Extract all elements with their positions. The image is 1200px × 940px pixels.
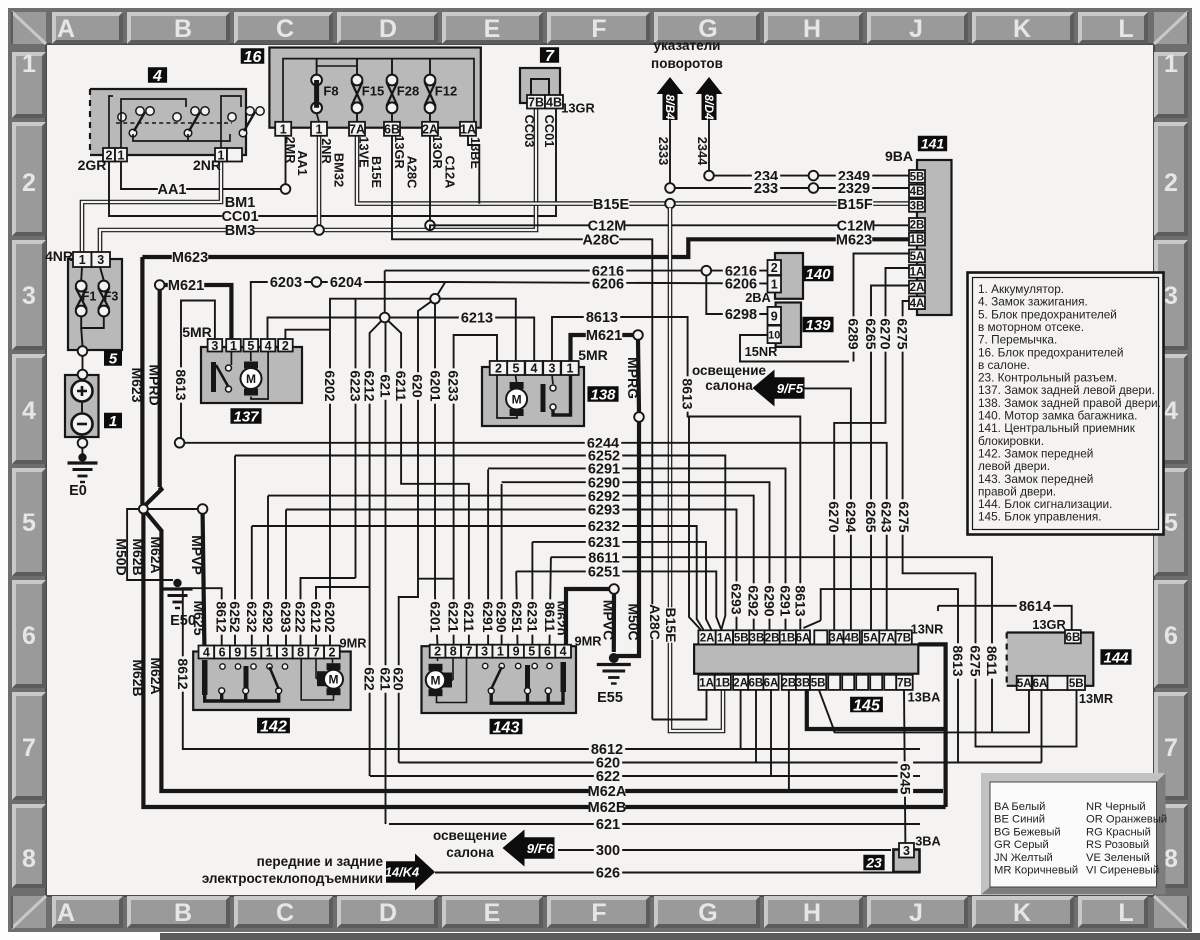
label 6252 [586,448,622,465]
component 141 central locking receiver body [917,160,952,315]
label 6232 [586,518,622,535]
svg-text:8: 8 [450,645,457,659]
wire 6291 bus [487,469,489,644]
wire 2333 from arrow 8/B4 [669,120,671,184]
svg-text:3B: 3B [750,632,765,644]
svg-text:6212: 6212 [362,370,378,401]
svg-text:D: D [379,15,397,43]
svg-text:8613: 8613 [792,585,808,616]
pin 6A bottom of control unit 145 [763,675,778,690]
svg-text:1B: 1B [910,234,925,246]
label 620 between [391,665,407,693]
svg-text:E: E [484,15,501,43]
svg-text:6204: 6204 [330,275,362,291]
component 7 jumper body [520,68,560,103]
wire 6244 bus to 6243 [184,443,886,630]
svg-text:2: 2 [1164,169,1178,197]
label M62B upper [130,538,146,575]
pin 1 of component 5 [73,252,92,267]
pin 3 of lock 142 [277,646,293,660]
wire 6232 bus horizontal [252,526,703,644]
wire 621 bottom line [389,823,920,825]
svg-text:2: 2 [495,362,502,376]
label 6293 at 142 [278,599,294,634]
badge component 138 [587,386,618,403]
label 13OR [430,135,445,168]
connector circle BM32/BM3 [314,225,324,235]
svg-text:6289: 6289 [845,318,861,349]
label M62A upper [148,536,164,573]
label M62B lower [130,659,146,696]
pin 1A top of control unit 145 [716,630,733,644]
svg-text:14/K4: 14/K4 [385,865,419,880]
wire 6216 riser from junction 1 [384,271,386,318]
svg-text:141: 141 [921,136,945,152]
svg-text:7A: 7A [349,122,365,136]
svg-text:2329: 2329 [838,181,870,197]
svg-text:6B: 6B [384,122,400,136]
pin 1A of component 16 at x=460 [460,122,476,137]
pin 4 of lock 138 [525,361,543,376]
label BM3 [225,222,256,239]
wire junction 2 to door lock 138 pin 5 [435,299,516,361]
wire between battery terminals [81,402,83,414]
svg-text:1A: 1A [699,677,714,689]
label 8613 right [950,643,966,678]
svg-text:6: 6 [219,646,226,660]
wire 6201 branch from junction 2 to lock 143 pin 2 [435,299,438,645]
svg-text:6293: 6293 [278,601,294,632]
svg-text:626: 626 [596,866,620,882]
svg-text:3: 3 [1164,282,1178,310]
label 13GR of component 7 [561,101,594,116]
label 6212 top [362,368,378,403]
svg-text:M: M [431,674,441,688]
wire 6245 from 145 pin 7B to connector 23 [904,690,905,845]
connector circle 6203/6204 [312,277,322,287]
svg-text:MPVC: MPVC [600,600,616,640]
svg-text:8611: 8611 [542,602,558,633]
blank pin bottom of 145 [870,675,882,690]
wire 6252 bus [234,456,236,645]
ground symbol E50 [163,589,193,608]
wire slant from 145 pin 5B bottom [819,690,834,732]
pin 4 of lock 142 [199,646,215,660]
svg-text:3BA: 3BA [915,834,941,849]
wire 6292 drop to lock 142 pin 1 [267,496,269,646]
label 6206 left [590,276,626,293]
connector circle 234/2349 [809,171,819,181]
wire from 145 pin 1A bottom to A28C [652,690,706,720]
label 9MR at 142 [339,636,366,651]
pin 5B of alarm 144 [1068,676,1086,690]
junction dot E0 [78,453,86,461]
wire 6290 bus [501,484,503,645]
svg-text:4B: 4B [844,632,859,644]
label M62B [588,799,627,816]
svg-text:6291: 6291 [777,585,793,616]
wire 6223 vertical [355,299,357,578]
svg-text:8: 8 [1164,845,1178,873]
svg-text:2A: 2A [733,677,748,689]
blank pin top of 145 [814,630,827,644]
svg-text:VE Зеленый: VE Зеленый [1086,852,1150,864]
svg-text:3: 3 [903,844,910,858]
wire M623 vertical to junction [140,257,144,504]
connector circle 2333/233 [665,183,675,193]
pin 1 of component 16 at x=275.2 [275,122,291,137]
svg-text:6265: 6265 [863,501,879,532]
label M62A lower [148,657,164,694]
svg-text:3: 3 [97,253,104,267]
svg-text:5A: 5A [910,251,925,263]
pin 3B of receiver 141 [909,199,925,213]
svg-text:5MR: 5MR [578,347,608,363]
svg-text:M62A: M62A [588,784,627,800]
svg-text:2B: 2B [765,632,780,644]
label 8612 [589,741,625,758]
badge component 5 [104,350,122,367]
wire 6222 link to lock 142 pin 8 [301,578,356,646]
pin 7 of lock 142 [308,646,324,660]
label 6292 at 145 [746,583,762,618]
svg-text:A28C: A28C [582,233,620,249]
wire 6216 from junction to motor 140 pin 2 [385,270,702,272]
svg-text:8613: 8613 [950,645,966,676]
svg-text:6223: 6223 [347,370,363,401]
label MPRG [625,357,641,399]
svg-text:A28C: A28C [647,604,663,640]
fuse F1 [76,281,87,317]
label F3 [104,290,119,304]
component 143 switch and motor wiring [437,656,567,703]
label 6298 [723,306,759,323]
svg-text:F28: F28 [397,84,419,99]
connector circle 8613/6244 [175,438,185,448]
label 2329 [836,180,872,197]
pin 2 of lock 142 [324,646,340,660]
svg-text:2B: 2B [910,220,925,232]
svg-text:2A: 2A [700,632,715,644]
pin 3 of lock 138 [543,361,561,376]
label 3BA [915,834,941,849]
wire 6211 branch from junction 1 to lock 143 pin 7 [385,318,469,645]
svg-text:J: J [909,899,923,927]
wire CC01 from ignition pin 2 to jumper 7 pin 4B [109,108,556,216]
svg-text:M623: M623 [172,250,208,266]
label A28C lower [647,604,663,640]
label 233 [752,180,780,197]
wire 620 bottom line [399,762,1042,764]
svg-text:13NR: 13NR [911,622,944,637]
svg-text:15NR: 15NR [745,344,778,359]
label E55 [597,690,623,706]
label 2GR [78,157,107,173]
label M625 [191,600,207,635]
wire 2349 to receiver 141 pin 5B [818,175,909,177]
svg-text:MPRD: MPRD [146,364,162,405]
svg-text:2: 2 [328,646,335,660]
pin 5 of lock 142 [246,646,262,660]
svg-text:8: 8 [22,845,36,873]
label 8611 [586,549,622,566]
svg-text:621: 621 [596,817,620,833]
svg-text:6B: 6B [748,677,763,689]
wire 300 line from arrow 9/F6 [558,849,891,851]
svg-text:6212: 6212 [308,601,324,632]
svg-text:6275: 6275 [896,501,912,532]
label C12M right [837,217,876,234]
svg-text:5B: 5B [811,677,826,689]
label 6213 [459,310,495,327]
pin 4 of lock 143 [555,645,571,659]
text освещение at 9/F6 [433,828,508,843]
svg-text:8613: 8613 [680,378,696,409]
wire 8613 diagonal tap [803,621,820,629]
pin 8 of lock 143 [445,645,461,659]
wire 6232 drop to lock 142 pin 5 [251,526,253,646]
svg-text:6A: 6A [1033,678,1048,690]
svg-text:1B: 1B [715,677,730,689]
svg-text:4: 4 [1164,397,1178,425]
svg-text:5: 5 [247,339,254,353]
label 622 between [362,665,378,693]
svg-text:6202: 6202 [322,370,338,401]
label 6251 [586,563,622,580]
pin 4A of receiver 141 [909,296,925,310]
svg-text:7A: 7A [880,632,895,644]
svg-text:4: 4 [560,645,567,659]
wire M620 from lock 143 pin 4 [566,589,609,645]
label 6293 [586,502,622,519]
motor of lock 143 [426,664,445,696]
svg-text:6222: 6222 [292,601,308,632]
blank pin of component 4 [227,148,242,162]
fuse F28 [387,75,398,114]
wire 233 line [675,187,810,189]
wire 620 branch from junction 2 [399,299,435,763]
svg-text:2NR: 2NR [193,157,221,173]
label 621 top [377,372,393,400]
svg-text:J: J [909,15,923,43]
badge component 139 [802,317,833,334]
svg-text:NR Черный: NR Черный [1086,801,1146,813]
label 6202 top [322,368,338,403]
wire from 145 pin 6A bottom [770,690,772,776]
pin 6 of lock 142 [214,646,230,660]
svg-text:9/F5: 9/F5 [777,381,804,396]
wire 6212 link to lock 142 pin 7 [316,587,370,646]
svg-text:C12A: C12A [442,156,457,189]
svg-text:4NR: 4NR [45,248,73,264]
pin 1 of motor 140 [768,276,782,293]
svg-text:E55: E55 [597,690,623,706]
svg-text:B: B [174,899,192,927]
svg-text:6: 6 [544,645,551,659]
connector circle MPRG/M50C [634,412,644,422]
svg-text:5MR: 5MR [182,324,212,340]
svg-text:G: G [698,899,717,927]
pin 3 of lock 137 [208,339,223,353]
pin 1 of lock 142 [261,646,277,660]
label AA1 vertical [295,150,310,176]
wire 6289 to receiver 141 pin 5A [854,254,910,362]
svg-text:поворотов: поворотов [651,56,723,71]
wire 234 line [714,175,810,177]
svg-text:указатели: указатели [654,38,721,53]
pin 3 of lock 143 [477,645,493,659]
wire M621 from circle to door lock 137 pin 1 [165,285,232,339]
blank pin bottom of 145 [884,675,896,690]
svg-text:8612: 8612 [175,658,191,689]
label 13GR [392,135,407,168]
connector circle on B15E line [665,199,675,209]
svg-text:2: 2 [771,261,778,275]
svg-text:M621: M621 [168,278,204,294]
svg-text:BG Бежевый: BG Бежевый [994,826,1061,838]
label M50D [114,538,130,575]
svg-text:C: C [276,15,294,43]
pin 5 of lock 143 [524,645,540,659]
svg-text:139: 139 [805,317,831,334]
svg-text:9: 9 [513,645,520,659]
legend box wire colours [981,773,1167,895]
label F12 [435,84,457,99]
svg-text:B: B [174,15,192,43]
label 6233 [446,368,462,403]
svg-text:6293: 6293 [728,583,744,614]
svg-text:1: 1 [109,413,117,430]
pin 1 of lock 138 [561,361,579,376]
svg-text:салона: салона [446,845,494,860]
arrow 8/D4 turn signals [696,77,723,120]
svg-text:K: K [1013,899,1031,927]
wire 6291 bus horizontal [488,468,785,644]
wire 8613 drop to 145 pin 2A [688,417,700,645]
text поворотов [651,56,723,71]
label 6206 right [723,276,759,293]
svg-text:1: 1 [566,362,573,376]
svg-text:5: 5 [512,362,519,376]
label 6265 upper [863,316,879,351]
badge component 137 [230,408,261,425]
pin 1A of receiver 141 [909,265,925,279]
motor of lock 142 [324,663,343,695]
svg-text:7: 7 [313,646,320,660]
svg-text:4: 4 [22,397,36,425]
motor of lock 138 [506,382,527,416]
svg-text:6: 6 [1164,622,1178,650]
label F1 [82,290,97,304]
svg-text:AA1: AA1 [157,182,186,198]
label 620 [594,755,622,772]
label 13NR [911,622,944,637]
label C12M left [588,217,627,234]
label 6291 at 143 [480,599,496,634]
pin 3 of component 5 [92,252,111,267]
pin 2A top of control unit 145 [698,630,715,644]
svg-text:6251: 6251 [588,565,620,581]
pin 4 of lock 137 [261,339,276,353]
wire 6251 bus horizontal [516,571,721,629]
pin 1 of component 4 [115,148,127,162]
motor of lock 137 [241,362,262,396]
label 8613 mid [680,376,696,411]
wire 13BE from fuse box 16 pin 1A [468,135,479,204]
label 6291 [586,460,622,477]
wire 8613 drop right of 145 [821,589,958,762]
badge component 145 [850,697,883,715]
wire M62B from junction [143,509,945,807]
badge component 141 [918,136,947,152]
svg-text:8611: 8611 [984,646,1000,677]
svg-text:7: 7 [545,48,555,65]
wire 6292 bus horizontal [268,496,754,645]
svg-text:8/B4: 8/B4 [663,94,677,120]
label A28C left [582,231,620,248]
svg-text:4B: 4B [546,95,562,109]
wire 620 riser to alarm 144 pin 6A [1041,690,1043,763]
svg-text:6206: 6206 [725,277,757,293]
component 138 rear-right door lock body [482,367,584,426]
svg-text:6294: 6294 [843,501,859,532]
wire MPRG vertical [638,340,639,412]
svg-text:M: M [329,673,339,687]
component 4 ignition switch body [90,89,246,155]
label 6216 right [723,263,759,280]
connector circle AA1 [281,184,291,194]
svg-text:6275: 6275 [967,645,983,676]
label 6251 at 143 [509,599,525,634]
svg-text:2333: 2333 [656,137,671,165]
svg-text:6231: 6231 [524,601,540,632]
pin 2 of component 4 [103,148,115,162]
pin 6A of alarm 144 [1033,676,1048,690]
svg-text:6252: 6252 [227,601,243,632]
junction dot E50 [173,579,181,587]
pin 10 of connector 139 [768,326,782,344]
pin 1 of lock 137 [226,339,241,353]
pin 7A top of control unit 145 [879,630,895,644]
label 8611 at 143 [542,599,558,634]
svg-text:BM3: BM3 [225,223,256,239]
label M623 left [172,249,208,266]
pin 7A of component 16 at x=349 [349,122,365,137]
component 144 alarm unit body [1007,633,1094,686]
fuse F12 [425,75,436,114]
svg-text:3: 3 [481,645,488,659]
svg-text:4: 4 [530,362,537,376]
svg-text:CC03: CC03 [522,115,537,148]
component 23 test connector pocket [893,850,919,873]
svg-text:622: 622 [596,769,620,785]
component 142 front-left door lock body [193,652,351,711]
arrow 14/K4 power windows [385,854,435,891]
label 13BA [908,690,941,705]
svg-text:освещение: освещение [433,828,508,843]
svg-text:D: D [379,899,397,927]
badge component 16 [241,48,265,66]
label B15E [593,196,630,213]
svg-text:142: 142 [260,718,287,735]
label 2NR [319,138,334,164]
wire 6233 from door lock 138 pin 2 [454,335,497,645]
arrow 9/F5 interior lighting [753,370,805,407]
svg-text:6221: 6221 [446,601,462,632]
label 6289 [845,316,861,351]
svg-text:8613: 8613 [586,310,618,326]
pin 2A bottom of control unit 145 [733,675,748,690]
